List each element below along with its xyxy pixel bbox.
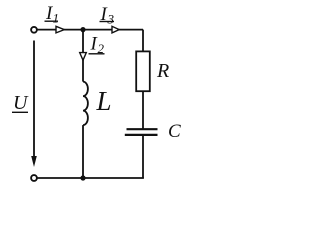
voltage arrow U line bbox=[33, 41, 35, 159]
arrow I2 open triangle down bbox=[80, 53, 87, 61]
svg-text:L: L bbox=[96, 86, 112, 116]
wire middle branch lower bbox=[82, 125, 84, 178]
wire top: from left terminal to right corner bbox=[37, 29, 143, 31]
capacitor C plate top bbox=[127, 128, 158, 130]
label I3 underline bbox=[100, 21, 115, 23]
voltage arrow U head bbox=[31, 156, 37, 167]
inductor L coil bbox=[83, 82, 88, 126]
svg-text:R: R bbox=[156, 60, 169, 82]
svg-text:C: C bbox=[168, 121, 181, 142]
capacitor C plate bottom bbox=[125, 134, 158, 136]
arrow I1 open triangle bbox=[56, 26, 64, 33]
node junction bottom bbox=[80, 175, 85, 180]
node junction top bbox=[80, 27, 85, 32]
svg-text:3: 3 bbox=[107, 12, 115, 27]
svg-text:1: 1 bbox=[53, 11, 60, 26]
terminal top left bbox=[31, 27, 37, 33]
terminal bottom left bbox=[31, 175, 37, 181]
label I2 underline bbox=[89, 53, 105, 55]
wire middle branch upper bbox=[82, 30, 84, 82]
arrow I3 open triangle bbox=[112, 26, 119, 33]
resistor R bbox=[136, 51, 150, 91]
wire capacitor to bottom bbox=[142, 136, 144, 178]
wire resistor to capacitor bbox=[142, 91, 144, 129]
label U underline bbox=[12, 111, 28, 113]
wire right branch upper bbox=[142, 30, 144, 52]
svg-text:U: U bbox=[13, 92, 29, 114]
label I1 underline bbox=[45, 20, 59, 22]
wire bottom: from left terminal to right branch bbox=[37, 177, 144, 179]
